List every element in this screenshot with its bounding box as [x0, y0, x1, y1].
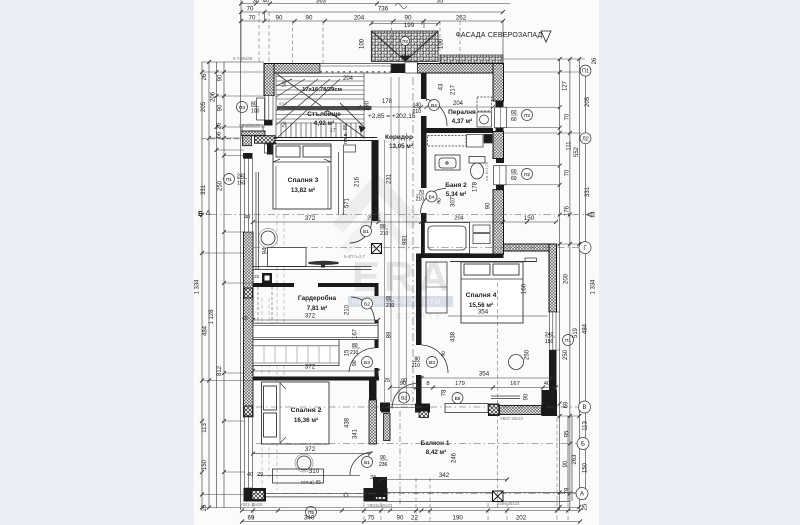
exterior wall top [264, 64, 504, 74]
svg-text:5,34 м²: 5,34 м² [446, 191, 466, 198]
svg-text:89: 89 [387, 331, 393, 338]
room label balcony [421, 440, 450, 456]
door tag В2 [399, 392, 410, 403]
svg-text:90: 90 [397, 515, 404, 522]
svg-text:40: 40 [544, 381, 550, 387]
room label staircase [307, 110, 341, 127]
projection dashed verticals left [262, 215, 284, 490]
svg-text:Спалня 3: Спалня 3 [288, 177, 319, 184]
door tag В4 [412, 100, 440, 116]
bottom numbers [248, 515, 527, 522]
section dash line balcony [399, 411, 401, 505]
bedroom3 south double line [253, 267, 372, 270]
interior wall bedroom4 left vertical [416, 258, 422, 404]
tv shelf bedroom 3 [309, 261, 339, 265]
wardrobe bedroom 4 [426, 262, 447, 313]
interior wall laundry/bath horizontal [421, 128, 493, 133]
door В4 corridor-laundry [427, 99, 448, 126]
svg-text:94: 94 [263, 247, 269, 254]
svg-text:438: 438 [345, 417, 351, 428]
svg-text:372: 372 [305, 215, 316, 222]
svg-text:8,42 м²: 8,42 м² [426, 449, 446, 456]
svg-text:1 128: 1 128 [209, 309, 215, 325]
svg-text:+2,85 = +202,15: +2,85 = +202,15 [368, 113, 416, 120]
exterior wall right lower [549, 244, 557, 416]
svg-text:УВ04а-25х23: УВ04а-25х23 [367, 503, 393, 508]
door Б3 bedroom2 upper [349, 348, 375, 372]
svg-text:150: 150 [202, 459, 208, 470]
svg-text:30: 30 [253, 0, 260, 5]
door П3 stair window tag left [237, 102, 260, 115]
closet line bedroom 3 [339, 152, 344, 215]
bath cabinet row dashed [428, 134, 493, 147]
svg-text:204: 204 [453, 101, 464, 107]
svg-text:УВ07-25х23: УВ07-25х23 [500, 416, 524, 421]
corridor column [372, 244, 382, 254]
svg-text:70: 70 [249, 15, 256, 22]
top dimension numbers row2 [247, 6, 389, 13]
interior dim row bedroom4 [448, 315, 548, 317]
left column numbers (rotated) [195, 73, 251, 511]
svg-text:519: 519 [573, 327, 579, 338]
svg-text:П3: П3 [402, 39, 408, 44]
svg-text:Спалня 4: Спалня 4 [466, 292, 497, 299]
wardrobe shelf dashed verticals [258, 287, 272, 323]
svg-text:35: 35 [437, 0, 444, 5]
window П3 left upper [257, 96, 274, 121]
svg-text:178: 178 [473, 181, 479, 192]
svg-text:340: 340 [304, 515, 315, 522]
window tag П2 lower right [511, 169, 533, 183]
svg-text:167: 167 [510, 381, 520, 387]
svg-text:К-Т-25х39: К-Т-25х39 [233, 56, 253, 61]
svg-text:190: 190 [365, 100, 371, 111]
svg-text:90: 90 [405, 15, 412, 22]
svg-text:95: 95 [565, 430, 571, 437]
door В1 bedroom2 lower [350, 452, 373, 475]
window tag П3 on terrace [401, 37, 410, 46]
svg-text:250: 250 [218, 180, 224, 191]
svg-text:150: 150 [524, 215, 535, 222]
door tag В5 [452, 393, 463, 404]
svg-text:П2: П2 [524, 113, 530, 119]
svg-text:С3-4б5х39: С3-4б5х39 [239, 123, 260, 128]
exterior wall bottom [244, 488, 388, 502]
svg-text:438: 438 [451, 331, 457, 342]
svg-text:331: 331 [585, 186, 591, 197]
svg-text:Пералня: Пералня [448, 109, 476, 116]
svg-text:Спалня 2: Спалня 2 [291, 407, 322, 414]
window П2 lower (bath 2) [485, 159, 506, 190]
right column ticks [558, 57, 582, 509]
door В2 balcony [385, 384, 419, 409]
svg-text:33: 33 [370, 475, 376, 481]
svg-text:179: 179 [455, 381, 465, 387]
interior dim row bedroom4 doors [390, 387, 556, 389]
left dimension column lines [202, 12, 264, 510]
window tag П5 bottom [306, 507, 317, 518]
svg-text:75: 75 [368, 515, 375, 522]
door В3 bedroom4 [422, 345, 449, 373]
svg-text:15: 15 [345, 349, 351, 356]
svg-text:Баня 2: Баня 2 [445, 182, 467, 189]
grid bubbles right [576, 65, 591, 499]
corridor interior dim lines [359, 77, 493, 402]
door tag В1 [362, 455, 389, 468]
window tag П1 left [224, 174, 248, 187]
svg-text:372: 372 [305, 446, 316, 453]
svg-text:113: 113 [202, 423, 208, 433]
svg-text:176: 176 [565, 205, 571, 216]
right dimension column lines [560, 59, 586, 510]
door tag Б4 [416, 190, 443, 204]
svg-text:206: 206 [211, 91, 217, 102]
svg-text:354: 354 [478, 309, 489, 316]
svg-text:В5: В5 [455, 396, 461, 402]
svg-text:372: 372 [305, 364, 316, 371]
svg-text:217: 217 [451, 84, 457, 95]
svg-text:236: 236 [379, 462, 388, 468]
window sill box step [242, 125, 263, 131]
grid dashed row Б [210, 214, 588, 216]
svg-text:16,36 м²: 16,36 м² [294, 417, 318, 424]
room label bedroom 2 [291, 407, 322, 424]
exterior wall left main [243, 136, 254, 417]
svg-text:363: 363 [316, 0, 327, 5]
svg-text:1 334: 1 334 [195, 279, 201, 295]
balcony column [493, 491, 504, 502]
svg-text:50: 50 [282, 121, 288, 127]
toilet bath 2 [469, 157, 485, 180]
bath shelf rects [473, 225, 490, 244]
door bedroom3 arc [350, 221, 372, 243]
step corner column block [255, 136, 276, 144]
svg-text:25: 25 [254, 274, 260, 279]
interior wall bedroom3 right vertical [372, 140, 379, 221]
room label laundry [448, 109, 476, 125]
svg-text:150: 150 [545, 339, 554, 345]
svg-text:П1: П1 [565, 338, 571, 344]
door tag Б1 bedroom3 [361, 224, 389, 237]
top dimension numbers row1 [253, 0, 444, 9]
svg-text:204: 204 [454, 216, 463, 222]
svg-text:263: 263 [572, 454, 578, 465]
svg-text:342: 342 [439, 472, 450, 479]
right column numbers (rotated) [563, 57, 599, 510]
bathtub bath 2 [425, 223, 470, 254]
cabinet bedroom 3 [268, 248, 307, 267]
svg-text:100: 100 [439, 38, 445, 49]
svg-text:К-4П h=2,7: К-4П h=2,7 [344, 254, 366, 259]
svg-text:484: 484 [583, 323, 589, 334]
stool circle bedroom 2 [297, 456, 311, 470]
washbasin bath 2 [435, 155, 460, 170]
svg-text:310: 310 [309, 468, 320, 475]
left column connector lines [202, 72, 580, 508]
column under corridor wall [419, 411, 429, 418]
window tag П2 upper right [511, 110, 533, 124]
wall junction block wardrobe [262, 273, 272, 283]
right column connectors [504, 59, 586, 493]
radiator bedroom 4 [491, 396, 520, 399]
stair handrail dark bar [277, 106, 372, 110]
svg-text:Б4: Б4 [429, 195, 435, 201]
svg-text:плт.в) 85: плт.в) 85 [301, 480, 321, 486]
svg-text:200: 200 [564, 273, 570, 284]
svg-text:40: 40 [244, 215, 250, 221]
exterior wall right upper [493, 64, 504, 255]
svg-text:В3: В3 [429, 360, 435, 366]
hatched wall strip below bedroom2 [384, 414, 391, 441]
svg-text:210: 210 [416, 197, 425, 203]
window right wall bedroom 4 [550, 312, 557, 350]
interior dim row wardrobe [253, 319, 378, 321]
svg-text:250: 250 [525, 349, 531, 360]
top dimension ticks [239, 2, 505, 24]
svg-text:66: 66 [217, 131, 223, 138]
svg-text:13,05 м²: 13,05 м² [389, 143, 413, 150]
interior wall bedroom2 right vertical [369, 381, 387, 498]
room label bedroom 4 [466, 292, 497, 309]
svg-text:262: 262 [456, 15, 467, 22]
exterior wall left upper (stair) [264, 64, 274, 126]
svg-text:У801-15х25: У801-15х25 [240, 502, 263, 507]
svg-text:204: 204 [343, 76, 354, 82]
svg-text:40: 40 [263, 0, 270, 5]
svg-text:43: 43 [439, 83, 445, 90]
svg-text:Л2: Л2 [582, 136, 589, 142]
svg-text:70: 70 [565, 113, 571, 120]
interior dim balcony [381, 479, 507, 481]
svg-text:100: 100 [251, 109, 260, 115]
svg-text:29: 29 [367, 216, 373, 222]
svg-text:ERA: ERA [352, 253, 453, 300]
grid dashed row Г [253, 247, 580, 249]
svg-text:8494-25х23: 8494-25х23 [497, 501, 520, 506]
stair bottom flight treads [276, 123, 364, 138]
bottom ticks [240, 509, 582, 524]
svg-text:26: 26 [202, 73, 208, 80]
svg-text:160: 160 [522, 283, 528, 294]
svg-text:8: 8 [426, 381, 429, 387]
svg-text:17x16,78/29см: 17x16,78/29см [302, 87, 342, 93]
svg-text:90: 90 [306, 15, 313, 22]
door tag Б3 [350, 343, 373, 368]
terrace checker block top [369, 22, 503, 64]
svg-text:70: 70 [247, 6, 254, 13]
svg-text:40: 40 [247, 472, 253, 478]
svg-text:246: 246 [452, 452, 458, 463]
door tag В3 [412, 350, 448, 369]
interior dim row bedroom4 lower [422, 377, 552, 379]
svg-text:П3: П3 [239, 105, 245, 111]
nightstand bedroom 3 [265, 144, 272, 153]
svg-text:17: 17 [330, 128, 336, 134]
svg-text:736: 736 [378, 6, 389, 13]
svg-text:29: 29 [257, 472, 263, 478]
interior dim row between bedroom3 and wardrobe [253, 221, 556, 223]
svg-text:571: 571 [345, 197, 351, 208]
balcony railing [386, 416, 572, 502]
room label corridor [385, 134, 413, 150]
window П5 left (bedroom 2) [245, 417, 253, 488]
facade triangle [541, 31, 551, 42]
svg-text:В4: В4 [431, 103, 437, 109]
svg-text:812: 812 [217, 365, 223, 376]
svg-text:216: 216 [355, 176, 361, 187]
grid dashed row А [253, 493, 580, 495]
stair landing edge double line [274, 138, 377, 141]
bed bedroom 3 [273, 144, 331, 209]
bottom dimension lines [242, 511, 580, 522]
interior wall bath/bedroom4 horizontal [416, 254, 504, 259]
svg-text:372: 372 [305, 313, 316, 320]
interior vertical dim labels [263, 76, 531, 463]
washing machine laundry [477, 97, 492, 127]
entrance recess top wall [405, 62, 417, 73]
interior wall bedroom3/wardrobe horizontal [253, 283, 379, 287]
svg-text:П1: П1 [226, 177, 232, 183]
svg-text:В1: В1 [364, 460, 370, 466]
interior dim row wardrobe bottom [253, 370, 378, 372]
french window П5 bottom [266, 493, 364, 497]
tiny annotation texts [233, 56, 524, 508]
svg-text:90: 90 [352, 360, 358, 366]
svg-text:ч.в. h=1,70: ч.в. h=1,70 [485, 162, 489, 181]
svg-text:ФАСАДА СЕВЕРОЗАПАД: ФАСАДА СЕВЕРОЗАПАД [456, 32, 543, 39]
top dimension lines [241, 0, 510, 63]
closet ledge bedroom 4 [450, 261, 537, 263]
svg-text:331: 331 [201, 184, 207, 195]
svg-text:341: 341 [353, 428, 359, 439]
room label wardrobe [298, 294, 337, 312]
stool circle bedroom 3 [261, 231, 275, 245]
left column ticks [200, 60, 226, 510]
door tag Б2 [362, 296, 395, 309]
radiator bedroom 3 window [256, 172, 259, 270]
svg-text:113: 113 [583, 421, 589, 431]
svg-text:22: 22 [411, 515, 418, 522]
window tag П1 right bedroom4 [545, 332, 574, 346]
bed bedroom 2 [262, 382, 330, 444]
door Б2 wardrobe [351, 297, 375, 320]
svg-text:25: 25 [202, 504, 208, 511]
svg-text:202: 202 [516, 515, 527, 522]
svg-text:78: 78 [565, 487, 571, 494]
room label bedroom 3 [288, 177, 319, 194]
svg-text:90: 90 [524, 393, 530, 400]
grid dashed row В [256, 406, 580, 408]
svg-text:25: 25 [384, 378, 390, 384]
window П1 left (bedroom 3) [245, 159, 253, 233]
svg-text:Стълбище: Стълбище [307, 110, 341, 118]
interior wall corridor/bath vertical [421, 133, 427, 254]
wall stub below step [267, 143, 276, 155]
wardrobe closet band 1 [253, 323, 378, 339]
svg-text:50: 50 [282, 81, 288, 87]
stair arrow [340, 103, 365, 132]
svg-text:231: 231 [387, 173, 393, 184]
dresser bedroom 2 [273, 469, 324, 483]
svg-text:354: 354 [479, 371, 490, 378]
svg-text:4,37 м²: 4,37 м² [452, 118, 472, 125]
svg-text:15: 15 [374, 216, 380, 222]
svg-text:127: 127 [563, 80, 569, 91]
svg-text:В: В [582, 405, 586, 411]
window П2 upper (laundry) [495, 101, 507, 132]
svg-text:25: 25 [583, 503, 589, 510]
svg-text:90: 90 [563, 460, 569, 467]
wardrobe closet band 2 [253, 340, 339, 366]
top dashed drop lines [259, 12, 460, 64]
watermark roof [338, 183, 416, 228]
stairs treads [276, 73, 364, 140]
svg-text:пл.в. 85: пл.в. 85 [343, 124, 349, 144]
svg-text:78: 78 [442, 389, 448, 396]
balcony top wall [488, 390, 557, 416]
svg-text:пл.в: пл.в [279, 101, 288, 106]
svg-text:210: 210 [345, 304, 351, 315]
svg-text:90: 90 [401, 378, 407, 384]
svg-text:26: 26 [217, 122, 223, 129]
watermark band [348, 296, 453, 307]
svg-text:Б1: Б1 [363, 229, 369, 235]
grid dashed row Б2 [256, 443, 580, 445]
svg-text:13,82 м²: 13,82 м² [291, 187, 315, 194]
top dimension numbers row3 [249, 15, 467, 30]
svg-text:7,81 м²: 7,81 м² [307, 305, 327, 312]
triangle marker right of Б row [588, 212, 594, 217]
svg-text:А: А [580, 492, 584, 498]
svg-text:199: 199 [404, 22, 415, 29]
interior wall bedroom2 top [253, 377, 379, 381]
interior dim row bedroom2 [253, 453, 370, 455]
svg-text:210: 210 [350, 350, 359, 356]
interior wall wardrobe right vertical [375, 287, 379, 380]
svg-text:Б2: Б2 [364, 302, 370, 308]
svg-text:Б: Б [198, 211, 203, 218]
svg-text:205: 205 [585, 96, 591, 107]
svg-text:69: 69 [248, 515, 255, 522]
svg-text:250: 250 [563, 349, 569, 360]
svg-text:90: 90 [218, 104, 224, 111]
svg-text:167: 167 [353, 328, 359, 339]
bed bedroom 4 [461, 262, 523, 323]
svg-text:991: 991 [403, 234, 409, 245]
svg-text:1 334: 1 334 [591, 279, 597, 295]
svg-text:205: 205 [201, 101, 207, 112]
room label bath 2 [445, 182, 467, 198]
step band right [504, 244, 557, 251]
corridor bottom wall / balcony door wall [381, 403, 488, 413]
svg-text:П1: П1 [582, 69, 589, 75]
step band left [241, 131, 265, 136]
svg-text:90: 90 [276, 15, 283, 22]
svg-text:85: 85 [280, 107, 285, 112]
svg-text:Б3: Б3 [364, 360, 370, 366]
svg-text:204: 204 [354, 15, 365, 22]
big window top wall 204 [320, 64, 391, 74]
grid label Б left [198, 211, 210, 219]
svg-text:4,92 м²: 4,92 м² [314, 120, 334, 127]
svg-text:210: 210 [386, 303, 395, 309]
interior wall corridor/laundry vertical [421, 73, 427, 134]
svg-text:90: 90 [486, 202, 492, 209]
svg-text:90: 90 [218, 74, 224, 81]
svg-text:60: 60 [511, 117, 517, 123]
svg-text:100: 100 [360, 38, 366, 49]
svg-text:484: 484 [203, 325, 209, 336]
